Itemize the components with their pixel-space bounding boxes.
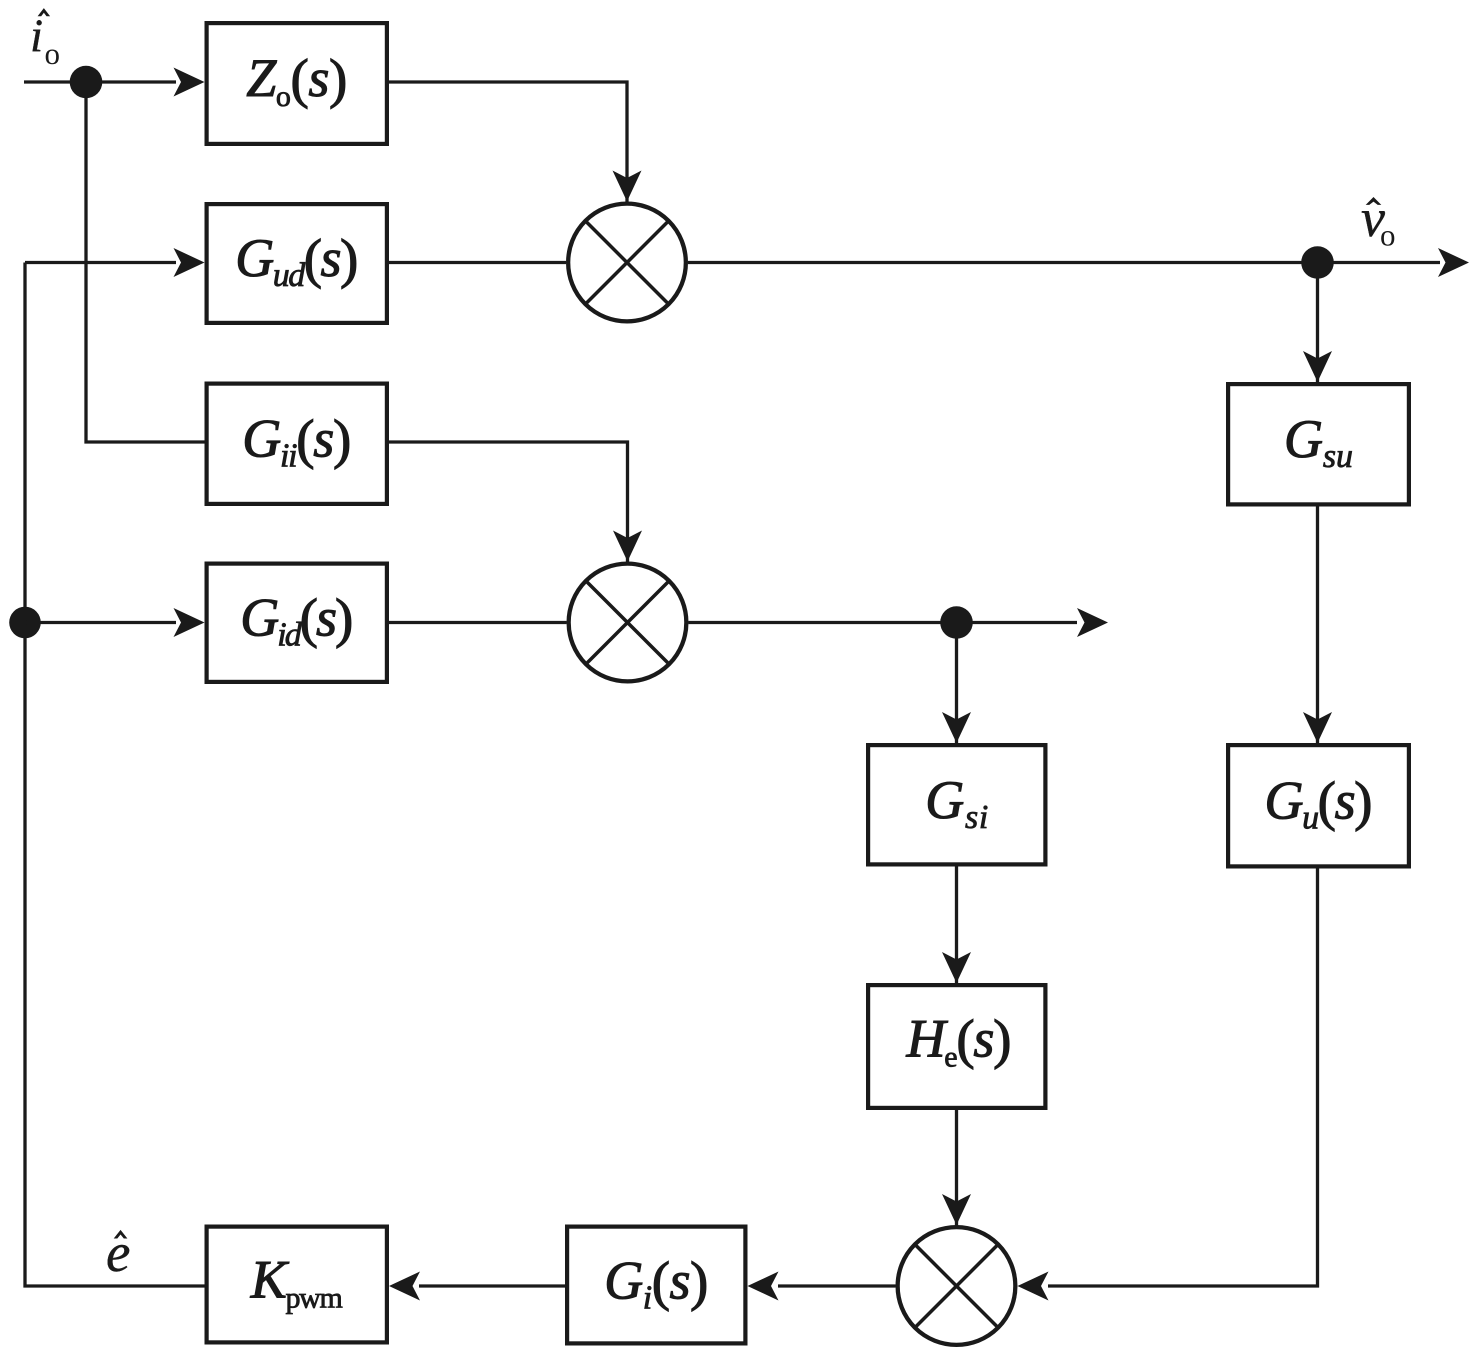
summing junction S1 bbox=[568, 204, 686, 322]
svg-text:Gi(s): Gi(s) bbox=[604, 1251, 708, 1317]
block G_id(s) bbox=[207, 564, 387, 682]
wire S2 to node D and output arrow bbox=[689, 621, 1078, 624]
node B at v_o bbox=[1301, 246, 1334, 279]
wire G_su down into G_u(s) bbox=[1316, 507, 1319, 747]
svg-text:e: e bbox=[106, 1222, 130, 1283]
wire G_i(s) left into K_pwm bbox=[419, 1284, 565, 1287]
wire G_u(s) down and left into S3 bbox=[1048, 869, 1318, 1287]
node C on feedback line bbox=[9, 607, 41, 639]
wire node B down into G_su bbox=[1316, 263, 1319, 386]
svg-text:o: o bbox=[1380, 218, 1396, 253]
wire i_o input into Z_o(s) bbox=[24, 80, 176, 83]
block K_pwm bbox=[207, 1227, 387, 1343]
block Z_o(s) bbox=[207, 23, 387, 144]
node D after S2 bbox=[940, 606, 973, 639]
block G_u(s) bbox=[1228, 745, 1409, 866]
summing junction S2 bbox=[569, 564, 687, 682]
wire Z_o(s) output to S1 bbox=[389, 82, 627, 204]
wire H_e(s) down into S3 bbox=[955, 1110, 958, 1228]
wire S3 left into G_i(s) bbox=[778, 1284, 896, 1287]
block G_i(s) bbox=[567, 1227, 745, 1344]
wire feedback into G_ud(s) bbox=[25, 261, 176, 264]
svg-text:Zo(s): Zo(s) bbox=[246, 48, 347, 113]
wire node A down into G_ii(s) bbox=[86, 82, 205, 442]
wire node D down into G_si bbox=[955, 623, 958, 747]
svg-text:i: i bbox=[30, 10, 43, 62]
block G_si bbox=[868, 745, 1045, 864]
svg-text:He(s): He(s) bbox=[906, 1009, 1012, 1074]
wire G_ii(s) output to S2 bbox=[389, 442, 628, 564]
svg-text:o: o bbox=[45, 36, 61, 71]
block H_e(s) bbox=[868, 985, 1045, 1108]
wire G_si down into H_e(s) bbox=[955, 867, 958, 987]
block G_su bbox=[1228, 384, 1409, 504]
wire S1 to v_o output arrow bbox=[688, 261, 1440, 264]
wire G_ud(s) output to S1 bbox=[389, 261, 566, 264]
summing junction S3 bbox=[898, 1227, 1016, 1345]
wire K_pwm output e feedback up to G_ud input bbox=[25, 263, 205, 1287]
node A on i_o input bbox=[70, 66, 103, 99]
svg-text:Gu(s): Gu(s) bbox=[1265, 771, 1373, 837]
block G_ii(s) bbox=[207, 384, 387, 504]
svg-text:Gii(s): Gii(s) bbox=[242, 409, 351, 475]
wire G_id(s) output to S2 bbox=[389, 621, 567, 624]
block G_ud(s) bbox=[207, 204, 387, 323]
wire node C into G_id(s) bbox=[25, 621, 176, 624]
